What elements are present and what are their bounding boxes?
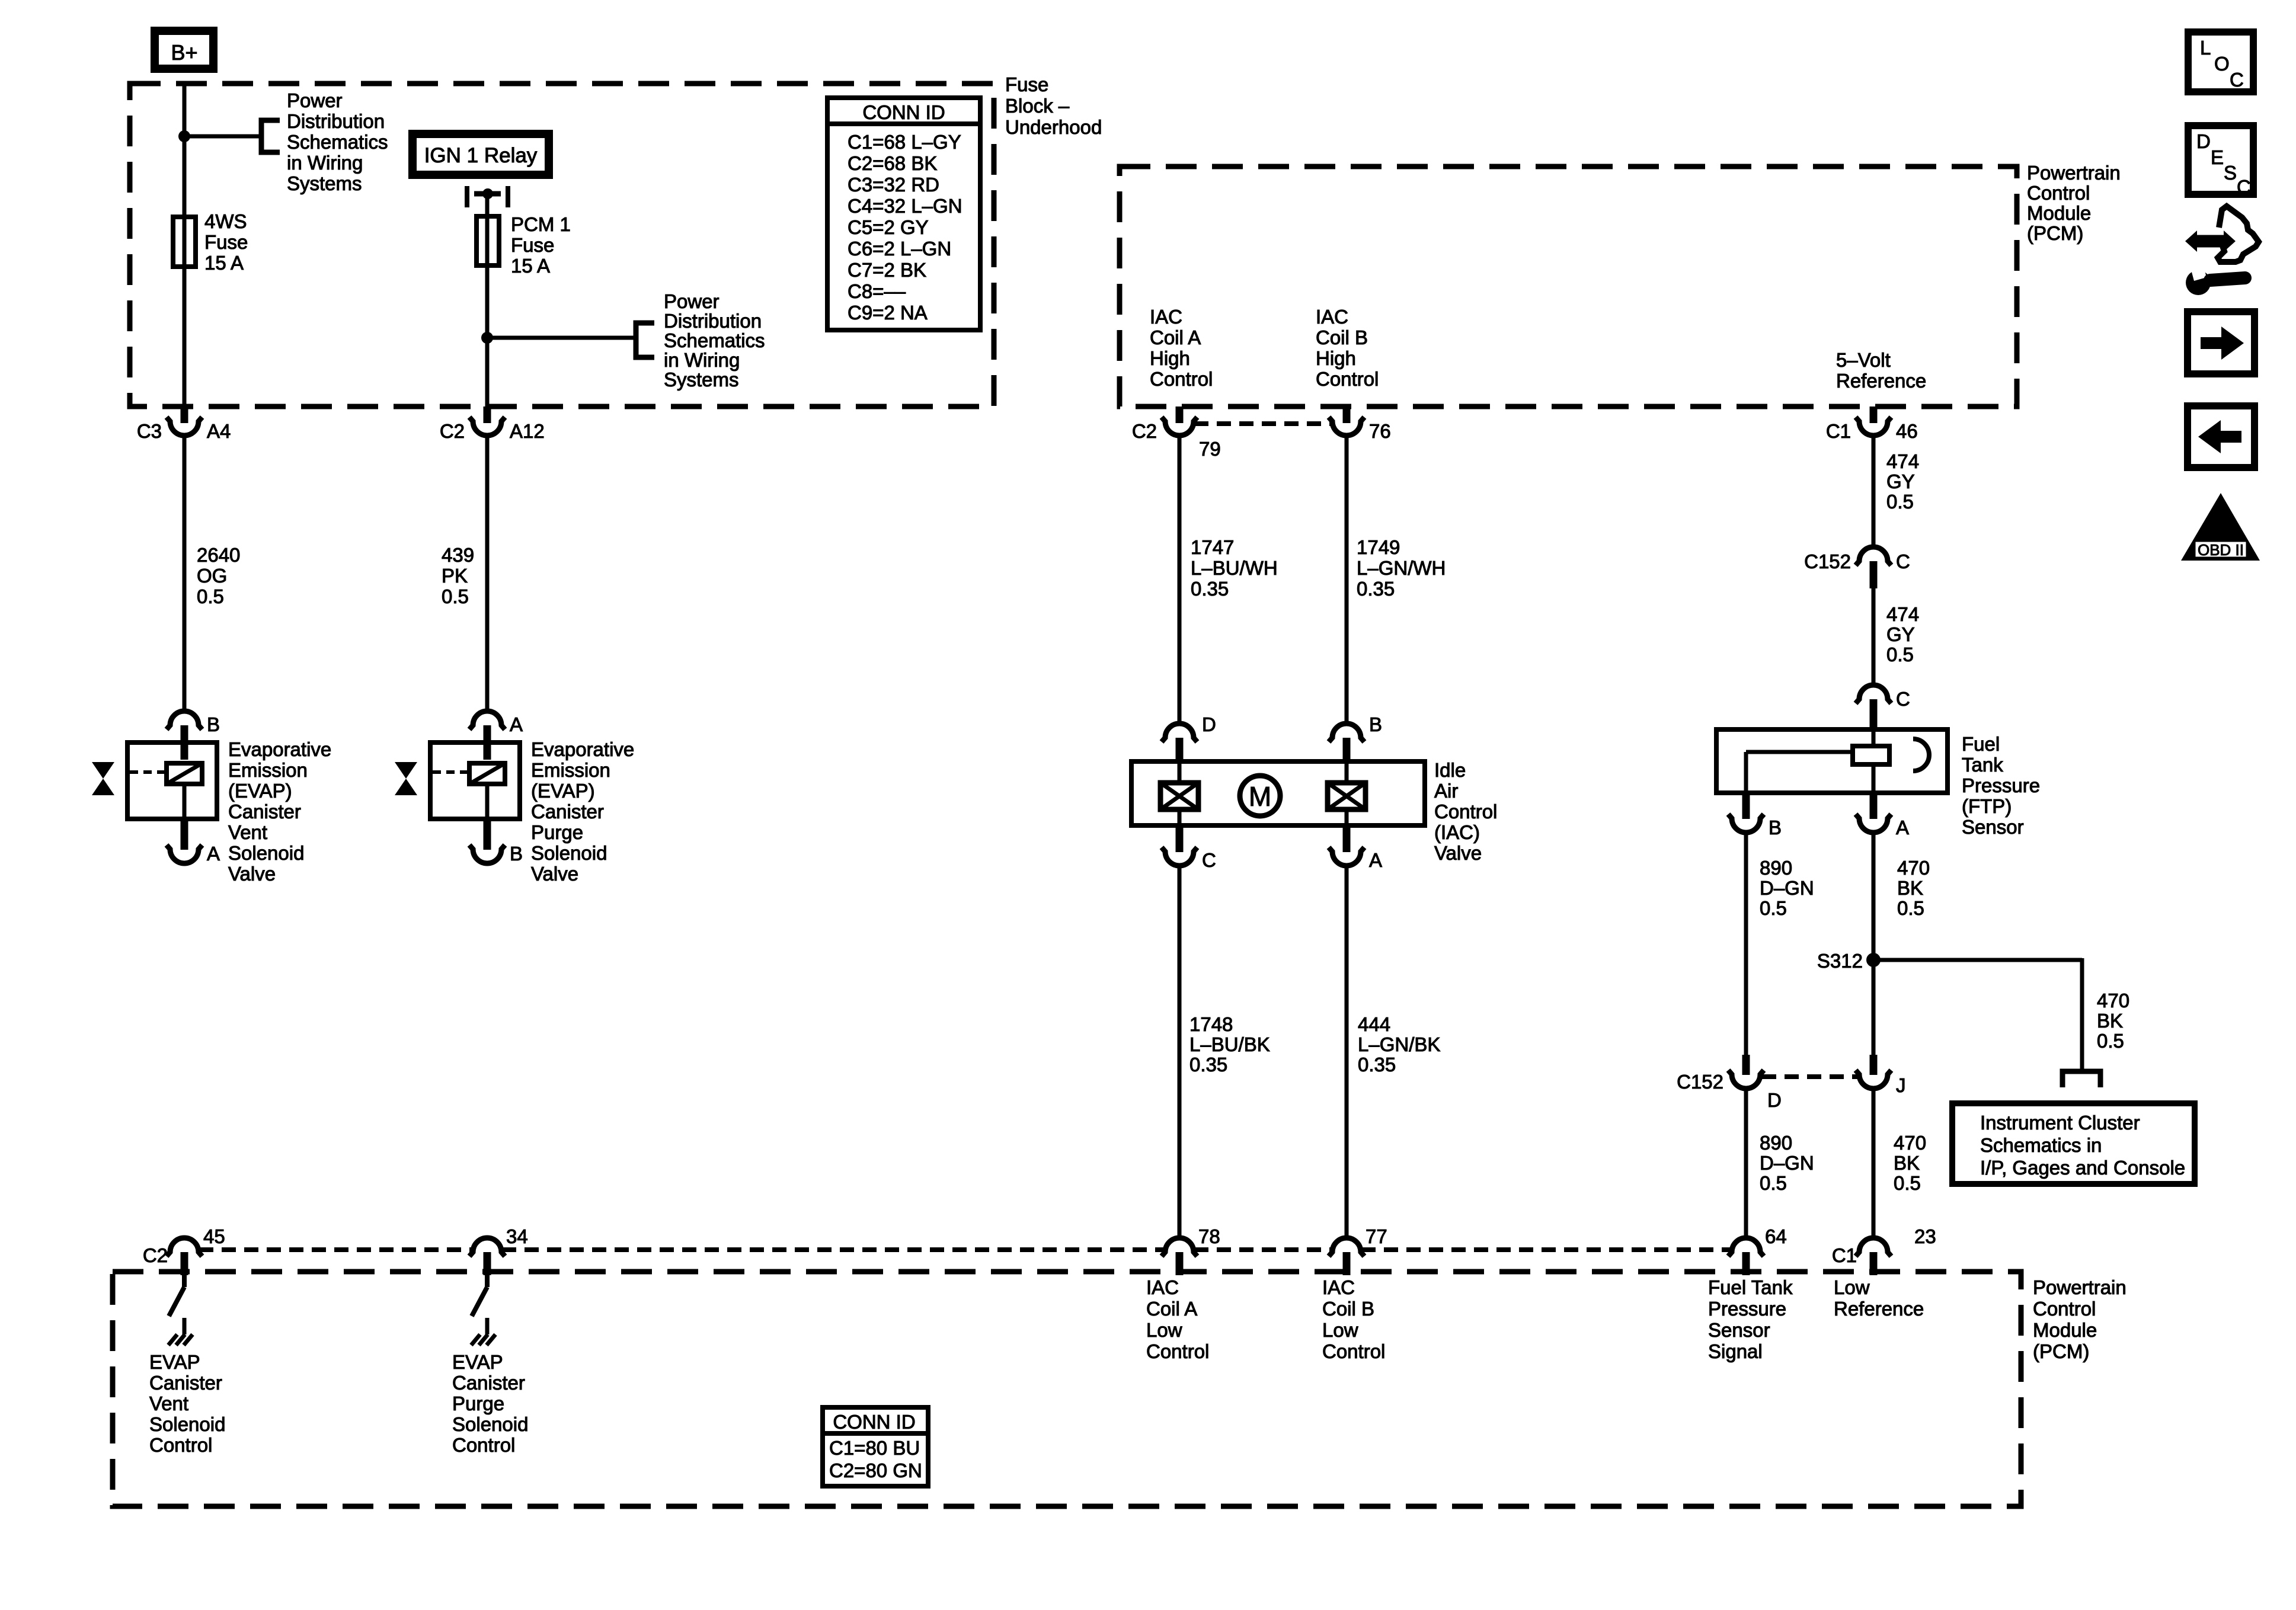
svg-text:Valve: Valve — [531, 863, 578, 885]
svg-text:IAC: IAC — [1316, 306, 1348, 328]
svg-text:S: S — [2224, 162, 2237, 184]
connector C152 J — [1856, 1055, 1906, 1096]
icon vehicle service (arrows car wrench) — [2185, 206, 2259, 295]
svg-text:23: 23 — [1914, 1225, 1936, 1247]
CONN ID table header — [862, 101, 945, 123]
svg-text:D: D — [2196, 130, 2211, 152]
icon forward arrow box — [2188, 312, 2255, 374]
wire 474 GY col6 mid — [1872, 587, 1876, 686]
svg-text:L–BU/WH: L–BU/WH — [1191, 557, 1278, 579]
label Fuel Tank Pressure FTP Sensor — [1962, 733, 2040, 838]
svg-text:C6=2 L–GN: C6=2 L–GN — [848, 238, 951, 260]
CONN ID table bottom box — [820, 1407, 928, 1486]
svg-text:15 A: 15 A — [204, 252, 244, 274]
label PCM 1 Fuse 15 A — [511, 213, 571, 277]
IAC coil A symbol — [1160, 760, 1198, 828]
svg-text:Canister: Canister — [531, 801, 604, 822]
svg-text:Fuel Tank: Fuel Tank — [1708, 1276, 1793, 1298]
label 474 GY 0.5 mid — [1886, 603, 1919, 665]
connector terminal 78 bottom row — [1162, 1225, 1220, 1275]
icon OBD II triangle — [2181, 493, 2260, 561]
svg-text:Low: Low — [1146, 1319, 1182, 1341]
label 470 BK 0.5 upper — [1897, 857, 1930, 919]
wire 474 GY col6 upper — [1872, 435, 1876, 548]
fuse F2 PCM 1 15A symbol — [477, 216, 499, 265]
connector terminal x=3161 row1 — [1826, 406, 1918, 442]
svg-text:(PCM): (PCM) — [2027, 222, 2083, 244]
svg-text:C2=68 BK: C2=68 BK — [848, 152, 937, 174]
wire relay to PCM1 fuse — [485, 194, 490, 410]
svg-text:C: C — [1202, 849, 1216, 871]
svg-text:C8=––: C8=–– — [848, 280, 906, 302]
svg-text:Coil A: Coil A — [1150, 327, 1201, 348]
svg-text:C1: C1 — [1832, 1244, 1857, 1266]
svg-text:Control: Control — [2027, 182, 2090, 204]
svg-text:Solenoid: Solenoid — [228, 842, 304, 864]
svg-text:EVAP: EVAP — [452, 1351, 503, 1373]
CONN ID table top box — [825, 98, 983, 330]
svg-text:Canister: Canister — [228, 801, 301, 822]
dotted connector line bottom row — [199, 1247, 1731, 1252]
svg-text:C4=32 L–GN: C4=32 L–GN — [848, 195, 962, 217]
IAC connector B top — [1329, 713, 1382, 760]
wire 470 BK col6 upper — [1872, 832, 1876, 960]
label IAC Coil A High Control — [1150, 306, 1213, 390]
label EVAP Canister Vent Solenoid Control — [149, 1351, 225, 1456]
off-page bracket instrument cluster — [2062, 1071, 2100, 1087]
wire 1747 L-BU/WH col3 — [1178, 435, 1182, 724]
svg-text:Control: Control — [1316, 368, 1379, 390]
svg-text:C: C — [2237, 176, 2251, 198]
label 890 D-GN 0.5 upper — [1760, 857, 1814, 919]
svg-text:Block –: Block – — [1005, 95, 1070, 117]
svg-text:A4: A4 — [207, 420, 231, 442]
svg-text:E: E — [2211, 146, 2224, 168]
label 474 GY 0.5 upper — [1886, 450, 1919, 513]
label 1749 L-GN/WH 0.35 — [1357, 536, 1446, 600]
svg-text:Purge: Purge — [531, 821, 583, 843]
PCM driver switch and ground (purge) — [471, 1275, 495, 1345]
svg-text:B: B — [1369, 713, 1382, 735]
svg-text:1748: 1748 — [1189, 1013, 1233, 1035]
connector terminal 64 bottom row — [1728, 1225, 1787, 1275]
svg-text:C2: C2 — [1132, 420, 1157, 442]
label 470 BK 0.5 lower — [1894, 1132, 1926, 1194]
svg-text:Fuse: Fuse — [1005, 73, 1048, 95]
PCM driver switch and ground (vent) — [168, 1275, 193, 1345]
svg-text:B: B — [207, 713, 220, 735]
svg-text:BK: BK — [1894, 1152, 1920, 1174]
svg-text:890: 890 — [1760, 857, 1792, 879]
svg-text:Evaporative: Evaporative — [228, 738, 331, 760]
wire branch to power distribution reference — [184, 135, 261, 139]
connector terminal 77 bottom row — [1329, 1225, 1387, 1275]
PCM bottom dashed box — [113, 1272, 2021, 1506]
svg-text:Emission: Emission — [228, 759, 308, 781]
svg-text:C1=68 L–GY: C1=68 L–GY — [848, 131, 961, 153]
relay IGN 1 box — [412, 134, 549, 175]
svg-text:PCM 1: PCM 1 — [511, 213, 571, 235]
svg-text:46: 46 — [1896, 420, 1918, 442]
svg-text:C5=2 GY: C5=2 GY — [848, 216, 929, 238]
label 5-Volt Reference — [1836, 349, 1926, 392]
svg-text:C2: C2 — [440, 420, 465, 442]
relay contact posts — [467, 186, 508, 207]
svg-text:Low: Low — [1322, 1319, 1358, 1341]
PCM top dashed box — [1120, 167, 2017, 406]
svg-text:C1=80 BU: C1=80 BU — [829, 1437, 920, 1459]
svg-text:C3: C3 — [137, 420, 162, 442]
label 1747 L-BU/WH 0.35 — [1191, 536, 1278, 600]
svg-text:(EVAP): (EVAP) — [228, 780, 292, 802]
svg-text:Underhood: Underhood — [1005, 116, 1102, 138]
svg-text:Module: Module — [2033, 1319, 2097, 1341]
svg-text:Valve: Valve — [1434, 842, 1482, 864]
connector C152 C — [1804, 547, 1910, 588]
IAC valve box — [1131, 761, 1425, 825]
connector terminal x=1990 row1 — [1132, 406, 1221, 460]
svg-text:2640: 2640 — [197, 544, 240, 566]
svg-text:(FTP): (FTP) — [1962, 795, 2012, 817]
connector C152 D — [1677, 1055, 1782, 1111]
svg-text:79: 79 — [1199, 438, 1221, 460]
wire 444 L-GN/BK col4 — [1345, 865, 1349, 1238]
svg-text:B: B — [1769, 817, 1782, 838]
svg-text:C3=32 RD: C3=32 RD — [848, 174, 939, 196]
label Fuse Block - Underhood — [1005, 73, 1102, 138]
svg-text:0.5: 0.5 — [1760, 897, 1787, 919]
svg-text:PK: PK — [442, 565, 468, 587]
icon LOC box — [2188, 32, 2253, 92]
wire 1749 L-GN/WH col4 — [1345, 435, 1349, 724]
fuse block underhood dashed box — [130, 84, 994, 406]
wire 890 D-GN col5 upper — [1744, 832, 1748, 1056]
CONN ID bottom header — [833, 1411, 915, 1433]
svg-text:0.5: 0.5 — [1894, 1172, 1921, 1194]
svg-text:Fuse: Fuse — [511, 234, 554, 256]
svg-text:B: B — [510, 843, 523, 865]
svg-text:C: C — [1896, 550, 1910, 572]
FTP sensor element — [1853, 746, 1889, 764]
svg-text:EVAP: EVAP — [149, 1351, 200, 1373]
svg-text:Solenoid: Solenoid — [149, 1413, 225, 1435]
label 890 D-GN 0.5 lower — [1760, 1132, 1814, 1194]
label IAC Coil B Low Control — [1322, 1276, 1385, 1362]
svg-text:A12: A12 — [510, 420, 545, 442]
svg-text:High: High — [1316, 347, 1356, 369]
wire B+ down (net B+) — [183, 81, 187, 410]
svg-text:Signal: Signal — [1708, 1340, 1763, 1362]
svg-text:Valve: Valve — [228, 863, 276, 885]
svg-text:77: 77 — [1366, 1225, 1387, 1247]
label Idle Air Control IAC Valve — [1434, 759, 1497, 864]
svg-text:C2: C2 — [143, 1244, 168, 1266]
label 444 L-GN/BK 0.35 — [1358, 1013, 1440, 1076]
FTP internal wiring — [1746, 727, 1873, 795]
power symbol B+ box — [155, 31, 213, 69]
svg-text:474: 474 — [1886, 450, 1919, 472]
svg-text:OBD II: OBD II — [2198, 541, 2244, 559]
svg-text:0.5: 0.5 — [1760, 1172, 1787, 1194]
svg-text:Control: Control — [1146, 1340, 1209, 1362]
IAC connector D — [1162, 713, 1216, 760]
svg-text:High: High — [1150, 347, 1190, 369]
svg-text:C: C — [1896, 688, 1910, 710]
svg-text:Systems: Systems — [287, 172, 362, 194]
svg-text:0.35: 0.35 — [1191, 578, 1229, 600]
EVAP canister vent solenoid valve (col1) — [92, 711, 331, 885]
svg-text:CONN ID: CONN ID — [862, 101, 945, 123]
svg-text:0.5: 0.5 — [1886, 491, 1914, 513]
svg-text:S312: S312 — [1817, 950, 1863, 972]
svg-text:C1: C1 — [1826, 420, 1851, 442]
wire 1748 L-BU/BK col3 — [1178, 865, 1182, 1238]
svg-text:D: D — [1767, 1089, 1782, 1111]
wire 470 BK col6 lower to C152 — [1872, 960, 1876, 1055]
svg-text:M: M — [1249, 781, 1271, 812]
CONN ID bottom rows — [829, 1437, 922, 1481]
svg-text:Schematics in: Schematics in — [1980, 1134, 2102, 1156]
FTP sensor box — [1716, 729, 1948, 793]
svg-text:0.35: 0.35 — [1357, 578, 1395, 600]
svg-text:Control: Control — [149, 1434, 212, 1456]
svg-text:1747: 1747 — [1191, 536, 1234, 558]
svg-text:Power: Power — [287, 89, 343, 111]
svg-text:4WS: 4WS — [204, 210, 247, 232]
label Powertrain Control Module PCM top — [2027, 162, 2121, 244]
svg-text:45: 45 — [203, 1225, 225, 1247]
svg-text:470: 470 — [2097, 990, 2129, 1012]
svg-text:0.5: 0.5 — [1886, 644, 1914, 665]
svg-text:A: A — [1369, 849, 1382, 871]
label Fuel Tank Pressure Sensor Signal — [1708, 1276, 1793, 1362]
IAC connector A bottom — [1329, 825, 1382, 871]
svg-text:34: 34 — [506, 1225, 528, 1247]
label Instrument Cluster Schematics — [1980, 1112, 2185, 1179]
svg-text:in Wiring: in Wiring — [664, 349, 740, 371]
svg-text:Solenoid: Solenoid — [531, 842, 607, 864]
svg-text:Low: Low — [1834, 1276, 1870, 1298]
svg-text:BK: BK — [1897, 877, 1923, 899]
svg-text:Distribution: Distribution — [287, 110, 385, 132]
svg-text:64: 64 — [1765, 1225, 1787, 1247]
svg-text:IGN 1 Relay: IGN 1 Relay — [424, 144, 538, 167]
svg-text:C7=2 BK: C7=2 BK — [848, 259, 926, 281]
svg-text:Control: Control — [1322, 1340, 1385, 1362]
svg-text:15 A: 15 A — [511, 255, 550, 277]
svg-text:C152: C152 — [1677, 1071, 1723, 1093]
svg-text:439: 439 — [442, 544, 474, 566]
connector terminal 45 bottom row — [143, 1225, 225, 1275]
label IAC Coil A Low Control — [1146, 1276, 1209, 1362]
svg-text:L–GN/WH: L–GN/WH — [1357, 557, 1446, 579]
label Low Reference — [1834, 1276, 1924, 1320]
IAC connector C — [1162, 825, 1216, 871]
label IAC Coil B High Control — [1316, 306, 1379, 390]
svg-text:Canister: Canister — [452, 1372, 525, 1394]
svg-text:0.5: 0.5 — [197, 585, 224, 607]
svg-text:Pressure: Pressure — [1708, 1298, 1786, 1320]
FTP connector A — [1856, 795, 1909, 838]
off-page bracket power distribution 1 — [261, 120, 280, 152]
svg-text:Control: Control — [452, 1434, 515, 1456]
label power distribution schematics 1 — [287, 89, 388, 194]
svg-text:L–GN/BK: L–GN/BK — [1358, 1033, 1440, 1055]
IAC motor M — [1240, 776, 1280, 816]
CONN ID table rows — [848, 131, 962, 324]
svg-text:0.35: 0.35 — [1189, 1054, 1227, 1076]
dotted connector line C2 79-76 — [1194, 421, 1332, 426]
fuse F1 4WS 15A symbol — [173, 217, 196, 267]
svg-text:Solenoid: Solenoid — [452, 1413, 528, 1435]
label power distribution schematics 2 — [664, 290, 765, 391]
svg-text:C9=2 NA: C9=2 NA — [848, 302, 928, 324]
svg-text:0.5: 0.5 — [442, 585, 469, 607]
svg-text:J: J — [1896, 1074, 1906, 1096]
svg-text:(PCM): (PCM) — [2033, 1340, 2089, 1362]
FTP connector B — [1728, 795, 1782, 838]
svg-text:I/P, Gages and Console: I/P, Gages and Console — [1980, 1157, 2185, 1179]
svg-text:BK: BK — [2097, 1010, 2123, 1032]
svg-text:Vent: Vent — [228, 821, 267, 843]
svg-text:Reference: Reference — [1836, 370, 1926, 392]
connector terminal x=2272 row1 — [1329, 406, 1391, 442]
IAC coil B symbol — [1328, 760, 1366, 828]
label EVAP Canister Purge Solenoid Control — [452, 1351, 528, 1456]
wire 890 D-GN col5 lower — [1744, 1088, 1748, 1238]
connector terminal x=311 row1 — [137, 406, 231, 442]
splice S312 — [1817, 950, 1881, 972]
svg-text:1749: 1749 — [1357, 536, 1400, 558]
svg-text:0.35: 0.35 — [1358, 1054, 1396, 1076]
svg-text:Coil B: Coil B — [1322, 1298, 1374, 1320]
label Powertrain Control Module PCM bottom — [2033, 1276, 2126, 1362]
wire 470 BK col6 lower — [1872, 1088, 1876, 1238]
svg-text:474: 474 — [1886, 603, 1919, 625]
label 439 PK 0.5 — [442, 544, 474, 607]
svg-text:Instrument Cluster: Instrument Cluster — [1980, 1112, 2140, 1134]
svg-text:Tank: Tank — [1962, 754, 2003, 776]
svg-text:Emission: Emission — [531, 759, 610, 781]
svg-text:(IAC): (IAC) — [1434, 821, 1480, 843]
svg-text:Fuse: Fuse — [204, 231, 248, 253]
svg-text:Fuel: Fuel — [1962, 733, 2000, 755]
svg-text:in Wiring: in Wiring — [287, 152, 363, 174]
svg-text:Schematics: Schematics — [664, 329, 765, 351]
svg-text:C: C — [2230, 69, 2244, 91]
svg-text:Canister: Canister — [149, 1372, 222, 1394]
svg-text:0.5: 0.5 — [2097, 1030, 2124, 1052]
svg-text:GY: GY — [1886, 623, 1915, 645]
junction dot on B+ feed — [178, 130, 190, 142]
connector terminal 23 bottom row — [1832, 1225, 1936, 1275]
svg-text:Schematics: Schematics — [287, 131, 388, 153]
svg-text:Control: Control — [1434, 801, 1497, 822]
svg-text:Coil A: Coil A — [1146, 1298, 1197, 1320]
EVAP canister purge solenoid valve (col2) — [395, 711, 634, 885]
svg-text:Control: Control — [1150, 368, 1213, 390]
svg-text:Sensor: Sensor — [1962, 816, 2024, 838]
svg-text:78: 78 — [1198, 1225, 1220, 1247]
svg-text:OG: OG — [197, 565, 227, 587]
svg-text:Module: Module — [2027, 202, 2091, 224]
svg-text:76: 76 — [1369, 420, 1391, 442]
svg-text:444: 444 — [1358, 1013, 1390, 1035]
svg-text:Sensor: Sensor — [1708, 1319, 1770, 1341]
svg-text:IAC: IAC — [1146, 1276, 1179, 1298]
svg-text:A: A — [207, 843, 220, 865]
svg-text:Evaporative: Evaporative — [531, 738, 634, 760]
svg-text:Pressure: Pressure — [1962, 774, 2040, 796]
relay output junction dot — [482, 188, 493, 199]
svg-text:L: L — [2200, 37, 2211, 59]
FTP transducer arc — [1913, 739, 1929, 771]
icon DESC box — [2188, 126, 2253, 198]
svg-text:Power: Power — [664, 290, 720, 312]
svg-text:470: 470 — [1894, 1132, 1926, 1154]
svg-text:A: A — [1896, 817, 1909, 838]
svg-text:5–Volt: 5–Volt — [1836, 349, 1891, 371]
svg-text:Idle: Idle — [1434, 759, 1466, 781]
svg-text:Purge: Purge — [452, 1393, 504, 1414]
junction dot PCM1 feed — [481, 332, 493, 344]
wire 439 PK col2 — [485, 435, 490, 712]
svg-text:C2=80 GN: C2=80 GN — [829, 1459, 922, 1481]
svg-text:Powertrain: Powertrain — [2033, 1276, 2126, 1298]
svg-text:(EVAP): (EVAP) — [531, 780, 595, 802]
svg-text:Coil B: Coil B — [1316, 327, 1368, 348]
connector terminal x=822 row1 — [440, 406, 545, 442]
svg-text:D–GN: D–GN — [1760, 877, 1814, 899]
wire 2640 OG col1 — [183, 435, 187, 712]
svg-text:Distribution: Distribution — [664, 310, 762, 332]
svg-text:Air: Air — [1434, 780, 1458, 802]
wire S312 branch to instrument cluster — [1873, 958, 2082, 1070]
svg-text:Reference: Reference — [1834, 1298, 1924, 1320]
off-page bracket power distribution 2 — [636, 323, 654, 357]
connector terminal 34 bottom row — [469, 1225, 528, 1275]
svg-text:470: 470 — [1897, 857, 1930, 879]
svg-text:Vent: Vent — [149, 1393, 188, 1414]
icon back arrow box — [2188, 406, 2255, 468]
instrument cluster reference box — [1952, 1103, 2195, 1184]
svg-text:GY: GY — [1886, 470, 1915, 492]
FTP connector C — [1856, 685, 1910, 728]
svg-text:Control: Control — [2033, 1298, 2096, 1320]
wire branch to power distribution reference 2 — [487, 336, 636, 340]
label 2640 OG 0.5 — [197, 544, 240, 607]
svg-text:0.5: 0.5 — [1897, 897, 1924, 919]
dotted connector line C152 D-J — [1762, 1074, 1859, 1079]
svg-text:D: D — [1202, 713, 1216, 735]
svg-text:Powertrain: Powertrain — [2027, 162, 2121, 184]
label 4WS Fuse 15 A — [204, 210, 248, 274]
label 470 BK 0.5 branch — [2097, 990, 2129, 1052]
svg-text:B+: B+ — [171, 40, 197, 65]
svg-text:L–BU/BK: L–BU/BK — [1189, 1033, 1270, 1055]
svg-text:Systems: Systems — [664, 369, 739, 391]
svg-text:D–GN: D–GN — [1760, 1152, 1814, 1174]
label 1748 L-BU/BK 0.35 — [1189, 1013, 1270, 1076]
svg-text:O: O — [2214, 53, 2230, 75]
svg-text:CONN ID: CONN ID — [833, 1411, 915, 1433]
svg-text:IAC: IAC — [1150, 306, 1182, 328]
svg-text:890: 890 — [1760, 1132, 1792, 1154]
svg-text:A: A — [510, 713, 523, 735]
svg-text:IAC: IAC — [1322, 1276, 1355, 1298]
svg-text:C152: C152 — [1804, 550, 1851, 572]
